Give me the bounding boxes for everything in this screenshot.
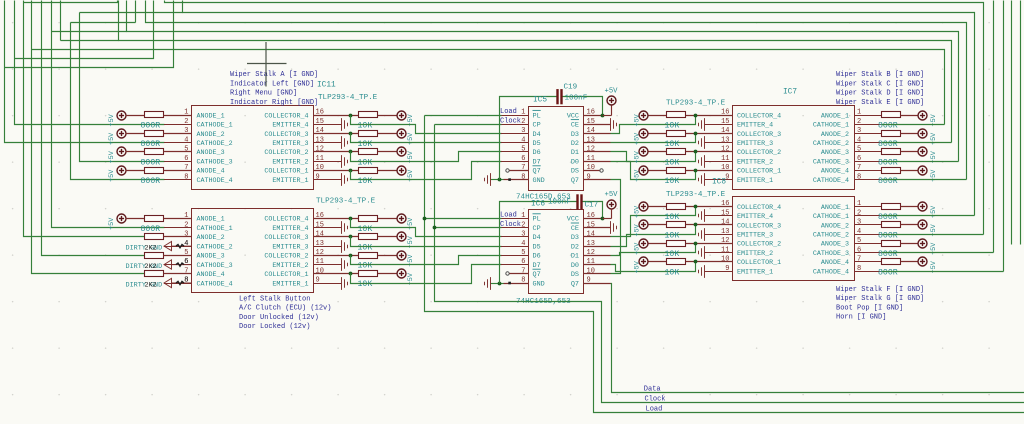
ground symbol (IC11 emitter_4) [342, 118, 348, 131]
wire TLP2 collector_2 to IC6 D6 [351, 256, 502, 265]
svg-text:ANODE_1: ANODE_1 [821, 204, 849, 212]
IC8 right pin 4 CATHODE_2 [813, 228, 881, 240]
svg-text:+5V: +5V [108, 132, 116, 145]
+5V power symbol (IC11 anode 1) [117, 111, 145, 120]
svg-text:10K: 10K [665, 268, 680, 277]
svg-text:11: 11 [721, 246, 729, 254]
svg-text:2: 2 [857, 209, 861, 217]
resistor 800R (IC7 anode_2) [882, 131, 919, 137]
wire IC11 collector_2 to IC5 D6 [351, 152, 502, 162]
IC8 left pin 16 COLLECTOR_4 [721, 200, 781, 212]
wire IC8 collector_1 to IC6 D0 [611, 262, 696, 272]
wire IC11 collector_4 to IC5 D4 [351, 116, 502, 134]
IC5 pin 3 D4 [501, 127, 541, 139]
svg-text:13: 13 [721, 136, 729, 144]
shift register box IC6 74HC165 [529, 210, 584, 294]
IC7 right pin 8 CATHODE_4 [813, 173, 881, 185]
wire IC8 cathode_2 up [882, 234, 984, 236]
10K pullup network (IC11 collector_2) [314, 147, 407, 156]
svg-text:COLLECTOR_4: COLLECTOR_4 [737, 204, 781, 212]
resistor 800R (IC8 anode_4) [882, 259, 919, 265]
svg-text:9: 9 [316, 173, 320, 181]
svg-text:TLP293-4_TP.E: TLP293-4_TP.E [318, 94, 378, 102]
resistor 800R (IC8 anode_1) [882, 204, 919, 210]
svg-text:PL: PL [533, 112, 541, 120]
svg-text:Load: Load [646, 405, 663, 413]
wire IC8 collector_2 to IC6 D1 [611, 244, 696, 256]
svg-text:Q7: Q7 [533, 168, 541, 176]
svg-text:12: 12 [587, 146, 595, 154]
svg-text:+5V: +5V [633, 150, 641, 163]
svg-text:EMITTER_2: EMITTER_2 [272, 262, 308, 270]
ground symbol (IC11 emitter_3) [342, 136, 348, 149]
10K pullup network (IC8 collector_4) [639, 202, 733, 211]
IC11 left pin 7 ANODE_4 [164, 164, 225, 176]
svg-text:8: 8 [521, 173, 525, 181]
svg-text:+5V: +5V [605, 191, 619, 199]
svg-text:800R: 800R [141, 225, 161, 234]
svg-text:PL: PL [533, 216, 541, 224]
IC6 pin 7 Q7 [521, 268, 540, 280]
svg-text:Q7: Q7 [533, 271, 541, 279]
svg-text:Load: Load [500, 212, 517, 220]
resistor 800R (IC11 anode 1) [145, 112, 192, 118]
10K pullup network (IC7 collector_2) [639, 147, 733, 156]
svg-text:CATHODE_4: CATHODE_4 [197, 177, 233, 185]
wire IC11 collector_1 to IC5 D7 [351, 162, 502, 180]
svg-text:Door Locked (12v): Door Locked (12v) [239, 323, 310, 331]
opto-coupler box TLP2 [192, 209, 314, 293]
svg-text:10K: 10K [358, 177, 373, 186]
svg-text:16: 16 [721, 109, 729, 117]
IC7 right pin 5 ANODE_3 [821, 146, 881, 158]
wire from top edge to IC8 pin6 [993, 1, 995, 253]
IC5 pin 15 CE [571, 118, 595, 130]
IC7 left pin 15 EMITTER_4 [721, 118, 773, 130]
IC5 Q7 output stub [584, 179, 611, 181]
TLP2 right pin 13 EMITTER_3 [272, 240, 341, 252]
ground symbol (TLP2 emitter_4) [342, 221, 348, 234]
IC5 pin 7 Q7 [521, 164, 540, 176]
IC6 pin 2 CP [501, 221, 541, 233]
10K pullup network (IC7 collector_4) [639, 111, 733, 120]
wire IC7 collector_2 to IC5 D1 [611, 152, 696, 162]
IC5 CE stub to ground [584, 124, 611, 126]
svg-text:10K: 10K [358, 243, 373, 252]
TLP2 right pin 10 COLLECTOR_1 [264, 268, 341, 280]
svg-text:COLLECTOR_2: COLLECTOR_2 [737, 241, 781, 249]
svg-text:Load: Load [500, 108, 517, 116]
wire IC7 collector_4 to IC5 D3 [611, 116, 696, 134]
TLP2 left pin 7 ANODE_4 [164, 268, 225, 280]
IC11 left pin 2 CATHODE_1 [164, 118, 233, 130]
svg-text:CATHODE_1: CATHODE_1 [197, 122, 233, 130]
IC7 right pin 3 ANODE_2 [821, 127, 881, 139]
IC8 left pin 12 COLLECTOR_2 [721, 237, 781, 249]
IC5 VCC stub [584, 115, 603, 117]
svg-text:4: 4 [521, 136, 525, 144]
svg-text:10K: 10K [665, 213, 680, 222]
wire IC7 collector_1 to IC5 D0 [611, 162, 696, 180]
svg-text:Indicator Right [GND]: Indicator Right [GND] [230, 99, 318, 107]
opto-coupler box IC7 [733, 106, 855, 190]
wire vertical to IC11 pin8 [71, 23, 165, 180]
svg-text:EMITTER_2: EMITTER_2 [737, 250, 773, 258]
svg-text:800R: 800R [878, 231, 898, 240]
+5V power symbol (IC8 anode_1) [918, 202, 927, 211]
10K pullup network (IC8 collector_3) [639, 220, 733, 229]
svg-text:10K: 10K [665, 250, 680, 259]
svg-text:COLLECTOR_3: COLLECTOR_3 [737, 131, 781, 139]
IC8 right pin 5 ANODE_3 [821, 237, 881, 249]
capacitor C17 [576, 194, 582, 209]
ground symbol (TLP2 emitter_3) [342, 240, 348, 253]
IC11 right pin 15 EMITTER_4 [272, 118, 341, 130]
TLP2 left pin 4 CATHODE_2 [164, 240, 233, 252]
IC11 right pin 13 EMITTER_3 [272, 136, 341, 148]
svg-text:ANODE_1: ANODE_1 [197, 112, 225, 120]
IC5 pin 9 Q7 [571, 173, 591, 185]
ground symbol (IC6 CE) [611, 221, 617, 234]
svg-text:6: 6 [184, 258, 188, 266]
svg-text:IC5: IC5 [533, 97, 547, 105]
svg-text:COLLECTOR_1: COLLECTOR_1 [264, 271, 308, 279]
+5V power symbol (IC8 anode_3) [918, 239, 927, 248]
ground symbol (IC6 GND) [485, 277, 491, 290]
svg-text:9: 9 [725, 265, 729, 273]
svg-text:3: 3 [521, 231, 525, 239]
IC11 right pin 11 EMITTER_2 [272, 155, 341, 167]
wire IC11 collector_3 to IC5 D5 [351, 134, 502, 143]
ground symbol (IC5 GND) [485, 173, 491, 186]
IC8 left pin 10 COLLECTOR_1 [721, 256, 781, 268]
svg-text:EMITTER_1: EMITTER_1 [272, 177, 308, 185]
IC11 left pin 3 ANODE_2 [164, 127, 225, 139]
svg-text:4: 4 [857, 136, 861, 144]
svg-text:7: 7 [521, 268, 525, 276]
IC11 left pin 6 CATHODE_3 [164, 155, 233, 167]
svg-text:Q7: Q7 [571, 177, 579, 185]
svg-text:14: 14 [316, 231, 324, 239]
10K pullup network (IC11 collector_4) [314, 111, 407, 120]
wire vertical to IC11 pin6 [80, 13, 165, 162]
+5V power symbol (TLP2 anode 1) [117, 214, 145, 223]
svg-text:6: 6 [857, 246, 861, 254]
svg-text:A/C Clutch (ECU) (12v): A/C Clutch (ECU) (12v) [239, 305, 331, 313]
ground symbol (IC7 emitter_4) [699, 118, 733, 131]
svg-text:IC6: IC6 [531, 200, 545, 208]
svg-text:COLLECTOR_4: COLLECTOR_4 [737, 112, 781, 120]
svg-text:D2: D2 [571, 243, 579, 251]
10K pullup network (IC11 collector_1) [314, 166, 407, 175]
ground symbol (IC8 emitter_2) [699, 246, 733, 259]
svg-text:100nF: 100nF [548, 199, 571, 207]
svg-text:Clock: Clock [500, 118, 521, 126]
ground symbol (TLP2 emitter_2) [342, 258, 348, 271]
resistor 2K2 (TLP2 anode 4) [145, 271, 192, 277]
TLP2 right pin 12 COLLECTOR_2 [264, 249, 341, 261]
+5V power symbol (IC8 anode_2) [918, 220, 927, 229]
wire stub from top edge (cropped) 2 [1020, 1, 1022, 245]
svg-text:CATHODE_3: CATHODE_3 [813, 159, 849, 167]
svg-text:DS: DS [571, 271, 579, 279]
svg-text:800R: 800R [878, 213, 898, 222]
svg-text:ANODE_3: ANODE_3 [197, 149, 225, 157]
+5V power symbol (IC7 anode_4) [918, 166, 927, 175]
IC6 pin 13 D2 [571, 240, 595, 252]
TLP2 left pin 8 CATHODE_4 [164, 277, 233, 289]
TLP2 left pin 6 CATHODE_3 [164, 258, 233, 270]
svg-text:Wiper Stalk E [I GND]: Wiper Stalk E [I GND] [836, 99, 924, 107]
svg-text:10: 10 [316, 268, 324, 276]
ground symbol (TLP2 emitter_1) [342, 277, 348, 290]
svg-text:COLLECTOR_1: COLLECTOR_1 [737, 168, 781, 176]
IC5 GND pin net [491, 178, 529, 182]
IC6 DS stub [584, 273, 611, 275]
svg-text:D5: D5 [533, 243, 541, 251]
opto-coupler box IC8 [733, 197, 855, 281]
svg-text:3: 3 [857, 219, 861, 227]
IC5 pin 14 D3 [571, 127, 595, 139]
wire IC5 decoupling branch [500, 97, 557, 180]
IC7 left pin 11 EMITTER_2 [721, 155, 773, 167]
svg-text:COLLECTOR_3: COLLECTOR_3 [264, 234, 308, 242]
svg-text:9: 9 [587, 173, 591, 181]
10K pullup network (TLP2 collector_1) [314, 269, 407, 278]
IC7 right pin 1 ANODE_1 [821, 109, 881, 121]
svg-text:EMITTER_4: EMITTER_4 [272, 225, 308, 233]
svg-text:14: 14 [721, 127, 729, 135]
svg-text:4: 4 [184, 136, 188, 144]
IC8 left pin 15 EMITTER_4 [721, 209, 773, 221]
svg-text:12: 12 [316, 146, 324, 154]
IC5 pin 6 D7 [501, 155, 541, 167]
10K pullup network (TLP2 collector_2) [314, 251, 407, 260]
svg-text:CATHODE_4: CATHODE_4 [813, 268, 849, 276]
svg-text:5: 5 [521, 146, 525, 154]
svg-text:EMITTER_2: EMITTER_2 [272, 159, 308, 167]
IC5 pin 1 PL [501, 109, 541, 121]
+5V power symbol (IC7 anode_1) [918, 111, 927, 120]
svg-text:+5V: +5V [605, 88, 619, 96]
svg-text:CE: CE [571, 122, 579, 130]
IC6 D0 stub [584, 264, 611, 266]
TLP2 right pin 16 COLLECTOR_4 [264, 212, 341, 224]
IC8 right pin 1 ANODE_1 [821, 200, 881, 212]
svg-text:Indicator Left [GND]: Indicator Left [GND] [230, 80, 314, 88]
IC11 right pin 9 EMITTER_1 [272, 173, 341, 185]
wire runner to IC8 pin4 (y2.6) [165, 1, 984, 235]
svg-text:VCC: VCC [567, 216, 579, 224]
wire vertical to TLP2 pin5 [42, 1, 145, 256]
svg-text:D7: D7 [533, 262, 541, 270]
ground symbol (IC7 emitter_2) [699, 155, 733, 168]
wire TLP2 collector_1 to IC6 D7 [351, 265, 502, 284]
IC8 right pin 3 ANODE_2 [821, 219, 881, 231]
svg-text:+5V: +5V [108, 150, 116, 163]
svg-text:IC11: IC11 [317, 82, 336, 90]
svg-text:D3: D3 [571, 234, 579, 242]
ground symbol (IC7 emitter_1) [699, 173, 733, 186]
svg-text:EMITTER_1: EMITTER_1 [272, 280, 308, 288]
svg-text:CATHODE_2: CATHODE_2 [813, 232, 849, 240]
svg-text:800R: 800R [878, 121, 898, 130]
IC7 left pin 16 COLLECTOR_4 [721, 109, 781, 121]
wire net Load [425, 116, 1024, 413]
svg-text:+5V: +5V [633, 113, 641, 126]
TLP2 right pin 14 COLLECTOR_3 [264, 231, 341, 243]
svg-text:4: 4 [184, 240, 188, 248]
wire runner to IC7 pin8 / left bundle (y22.1) [71, 22, 136, 24]
svg-text:12: 12 [721, 237, 729, 245]
svg-text:EMITTER_3: EMITTER_3 [737, 140, 773, 148]
svg-text:ANODE_3: ANODE_3 [821, 149, 849, 157]
+5V power symbol (IC11 anode 3) [117, 147, 145, 156]
TLP2 right pin 15 EMITTER_4 [272, 221, 341, 233]
svg-text:TLP293-4_TP.E: TLP293-4_TP.E [666, 100, 726, 108]
svg-text:Q7: Q7 [571, 280, 579, 288]
IC6 D2 stub [584, 246, 611, 248]
svg-text:12: 12 [721, 146, 729, 154]
IC8 right pin 7 ANODE_4 [821, 256, 881, 268]
IC8 right pin 2 CATHODE_1 [813, 209, 881, 221]
svg-text:EMITTER_1: EMITTER_1 [737, 268, 773, 276]
svg-text:7: 7 [857, 256, 861, 264]
svg-text:800R: 800R [141, 140, 161, 149]
wire TLP2 collector_3 to IC6 D5 [351, 237, 502, 247]
svg-text:Wiper Stalk A [I GND]: Wiper Stalk A [I GND] [230, 71, 318, 79]
IC7 left pin 9 EMITTER_1 [725, 173, 773, 185]
svg-text:7: 7 [184, 268, 188, 276]
svg-text:COLLECTOR_1: COLLECTOR_1 [737, 259, 781, 267]
svg-text:+5V: +5V [633, 223, 641, 236]
wire net Clock [435, 125, 1024, 403]
10K pullup network (TLP2 collector_4) [314, 214, 407, 223]
svg-text:15: 15 [587, 221, 595, 229]
+5V power symbol (IC11 anode 4) [117, 166, 145, 175]
svg-text:Wiper Stalk C [I GND]: Wiper Stalk C [I GND] [836, 80, 924, 88]
IC6 GND pin net [491, 282, 529, 286]
svg-text:2K2: 2K2 [145, 281, 157, 289]
IC7 left pin 10 COLLECTOR_1 [721, 164, 781, 176]
IC6 pin 1 PL [501, 212, 541, 224]
svg-text:ANODE_1: ANODE_1 [821, 112, 849, 120]
IC7 right pin 6 CATHODE_3 [813, 155, 881, 167]
IC6 pin 11 D0 [571, 258, 595, 270]
svg-text:15: 15 [721, 209, 729, 217]
+5V power symbol (IC8 anode_4) [918, 257, 927, 266]
wire vertical jog (cropped net) [60, 1, 62, 41]
svg-text:CATHODE_4: CATHODE_4 [197, 280, 233, 288]
TLP2 left pin 2 CATHODE_1 [164, 221, 233, 233]
svg-text:DS: DS [571, 168, 579, 176]
resistor 800R (TLP2 anode 1) [145, 216, 192, 222]
opto-coupler box IC11 [192, 106, 314, 190]
svg-text:COLLECTOR_3: COLLECTOR_3 [737, 222, 781, 230]
svg-text:2: 2 [521, 221, 525, 229]
svg-text:CATHODE_3: CATHODE_3 [197, 262, 233, 270]
IC7 right pin 2 CATHODE_1 [813, 118, 881, 130]
svg-text:2K2: 2K2 [145, 263, 157, 271]
svg-text:Door Unlocked (12v): Door Unlocked (12v) [239, 314, 319, 322]
10K pullup network (IC7 collector_1) [639, 166, 733, 175]
+5V power symbol (IC7 anode_2) [918, 129, 927, 138]
svg-text:10K: 10K [665, 177, 680, 186]
IC6 pin 12 D1 [571, 249, 595, 261]
wire link from top drop x153.5 to left bundle (y58.3) [15, 1, 154, 59]
svg-text:C17: C17 [585, 202, 599, 210]
IC6 pin 15 CE [571, 221, 595, 233]
svg-text:10K: 10K [665, 231, 680, 240]
TLP2 left pin 1 ANODE_1 [164, 212, 225, 224]
IC11 left pin 5 ANODE_3 [164, 146, 225, 158]
svg-text:TLP293-4_TP.E: TLP293-4_TP.E [666, 191, 726, 199]
svg-text:74HC165D,653: 74HC165D,653 [516, 298, 571, 306]
IC6 pin 5 D6 [501, 249, 541, 261]
resistor 800R (IC11 anode 3) [145, 149, 192, 155]
svg-text:+5V: +5V [108, 169, 116, 182]
svg-text:ANODE_2: ANODE_2 [197, 234, 225, 242]
svg-text:COLLECTOR_2: COLLECTOR_2 [737, 149, 781, 157]
svg-text:10K: 10K [665, 121, 680, 130]
IC5 pin 16 VCC [567, 109, 595, 121]
svg-text:EMITTER_1: EMITTER_1 [737, 177, 773, 185]
svg-text:TLP293-4_TP.E: TLP293-4_TP.E [316, 197, 376, 205]
svg-text:5: 5 [184, 146, 188, 154]
svg-text:+5V: +5V [633, 169, 641, 182]
svg-text:800R: 800R [878, 158, 898, 167]
IC11 right pin 12 COLLECTOR_2 [264, 146, 341, 158]
svg-text:COLLECTOR_3: COLLECTOR_3 [264, 131, 308, 139]
svg-text:Left Stalk Button: Left Stalk Button [239, 296, 310, 304]
svg-text:8: 8 [184, 277, 188, 285]
IC5 D2 stub [584, 142, 611, 144]
svg-text:EMITTER_3: EMITTER_3 [272, 140, 308, 148]
wire from top edge to IC8 pin8 [1003, 1, 1005, 272]
svg-text:10: 10 [587, 268, 595, 276]
svg-text:CATHODE_3: CATHODE_3 [813, 250, 849, 258]
svg-text:13: 13 [587, 136, 595, 144]
svg-text:COLLECTOR_2: COLLECTOR_2 [264, 253, 308, 261]
TLP2 left pin 5 ANODE_3 [164, 249, 225, 261]
svg-text:Clock: Clock [645, 395, 666, 403]
resistor 800R (IC7 anode_1) [882, 112, 919, 118]
wire runner to IC7 pin4 / left bundle (y40.8) [61, 40, 119, 42]
wire vertical to TLP2 pin3 [24, 1, 145, 237]
IC6 pin 8 GND [501, 277, 545, 289]
IC6 CE stub to ground [584, 227, 611, 229]
ground symbol (IC8 emitter_4) [699, 209, 733, 222]
resistor 800R (IC11 anode 2) [145, 131, 192, 137]
svg-text:EMITTER_4: EMITTER_4 [737, 213, 773, 221]
svg-text:+5V: +5V [633, 242, 641, 255]
IC7 left pin 14 COLLECTOR_3 [721, 127, 781, 139]
wire IC7 cathode_1 up [882, 124, 945, 126]
IC6 pin 16 VCC [567, 212, 595, 224]
svg-text:ANODE_1: ANODE_1 [197, 216, 225, 224]
svg-text:COLLECTOR_1: COLLECTOR_1 [264, 168, 308, 176]
svg-text:8: 8 [184, 173, 188, 181]
wire IC8 cathode_4 up [882, 271, 1004, 273]
wire vertical to TLP2 pin2 [52, 1, 165, 228]
10K pullup network (IC8 collector_2) [639, 239, 733, 248]
svg-text:15: 15 [721, 118, 729, 126]
svg-text:ANODE_4: ANODE_4 [821, 168, 849, 176]
global label DIRTY GND (TLP2 pin 4) [126, 240, 192, 253]
svg-text:ANODE_2: ANODE_2 [821, 222, 849, 230]
svg-text:GND: GND [533, 280, 545, 288]
resistor 800R (IC8 anode_2) [882, 222, 919, 228]
